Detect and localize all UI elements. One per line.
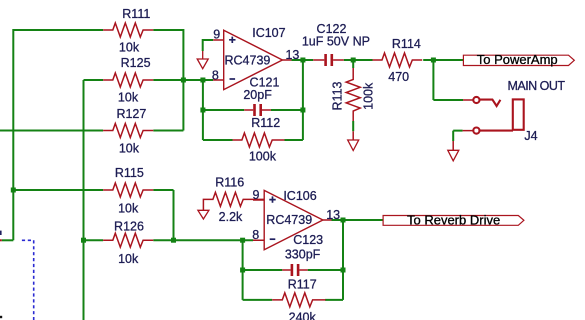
- svg-text:100k: 100k: [361, 82, 375, 110]
- svg-text:10k: 10k: [118, 91, 139, 105]
- svg-text:13: 13: [326, 208, 340, 222]
- svg-text:470: 470: [388, 70, 409, 84]
- svg-text:IC107: IC107: [252, 26, 285, 40]
- svg-text:MAIN OUT: MAIN OUT: [507, 79, 565, 93]
- svg-text:J4: J4: [524, 129, 537, 143]
- svg-text:C123: C123: [293, 233, 323, 247]
- svg-text:R112: R112: [251, 116, 280, 130]
- svg-text:13: 13: [285, 48, 299, 62]
- svg-text:240k: 240k: [289, 311, 317, 320]
- svg-text:RC4739: RC4739: [266, 213, 312, 227]
- svg-text:R115: R115: [115, 166, 144, 180]
- svg-text:8: 8: [212, 68, 219, 82]
- svg-text:100k: 100k: [249, 149, 277, 163]
- svg-text:RC4739: RC4739: [225, 54, 271, 68]
- svg-text:10k: 10k: [118, 252, 139, 266]
- svg-text:9: 9: [253, 188, 260, 202]
- svg-text:20pF: 20pF: [243, 88, 272, 102]
- svg-text:R116: R116: [215, 176, 244, 190]
- svg-text:To PowerAmp: To PowerAmp: [477, 52, 558, 67]
- svg-text:10k: 10k: [119, 142, 140, 156]
- svg-text:10k: 10k: [119, 41, 140, 55]
- svg-text:R113: R113: [331, 81, 345, 110]
- svg-text:IC106: IC106: [283, 189, 316, 203]
- svg-text:1uF 50V NP: 1uF 50V NP: [302, 35, 370, 49]
- svg-text:10k: 10k: [118, 202, 139, 216]
- svg-text:330pF: 330pF: [285, 248, 321, 262]
- svg-text:R117: R117: [288, 277, 317, 291]
- svg-text:R114: R114: [392, 37, 421, 51]
- svg-text:8: 8: [252, 228, 259, 242]
- svg-text:R127: R127: [116, 107, 146, 121]
- svg-text:R111: R111: [122, 7, 150, 21]
- svg-text:2.2k: 2.2k: [219, 210, 243, 224]
- svg-text:To Reverb Drive: To Reverb Drive: [407, 213, 500, 228]
- svg-text:R125: R125: [121, 56, 151, 70]
- svg-text:R126: R126: [114, 220, 144, 234]
- svg-text:9: 9: [213, 28, 220, 42]
